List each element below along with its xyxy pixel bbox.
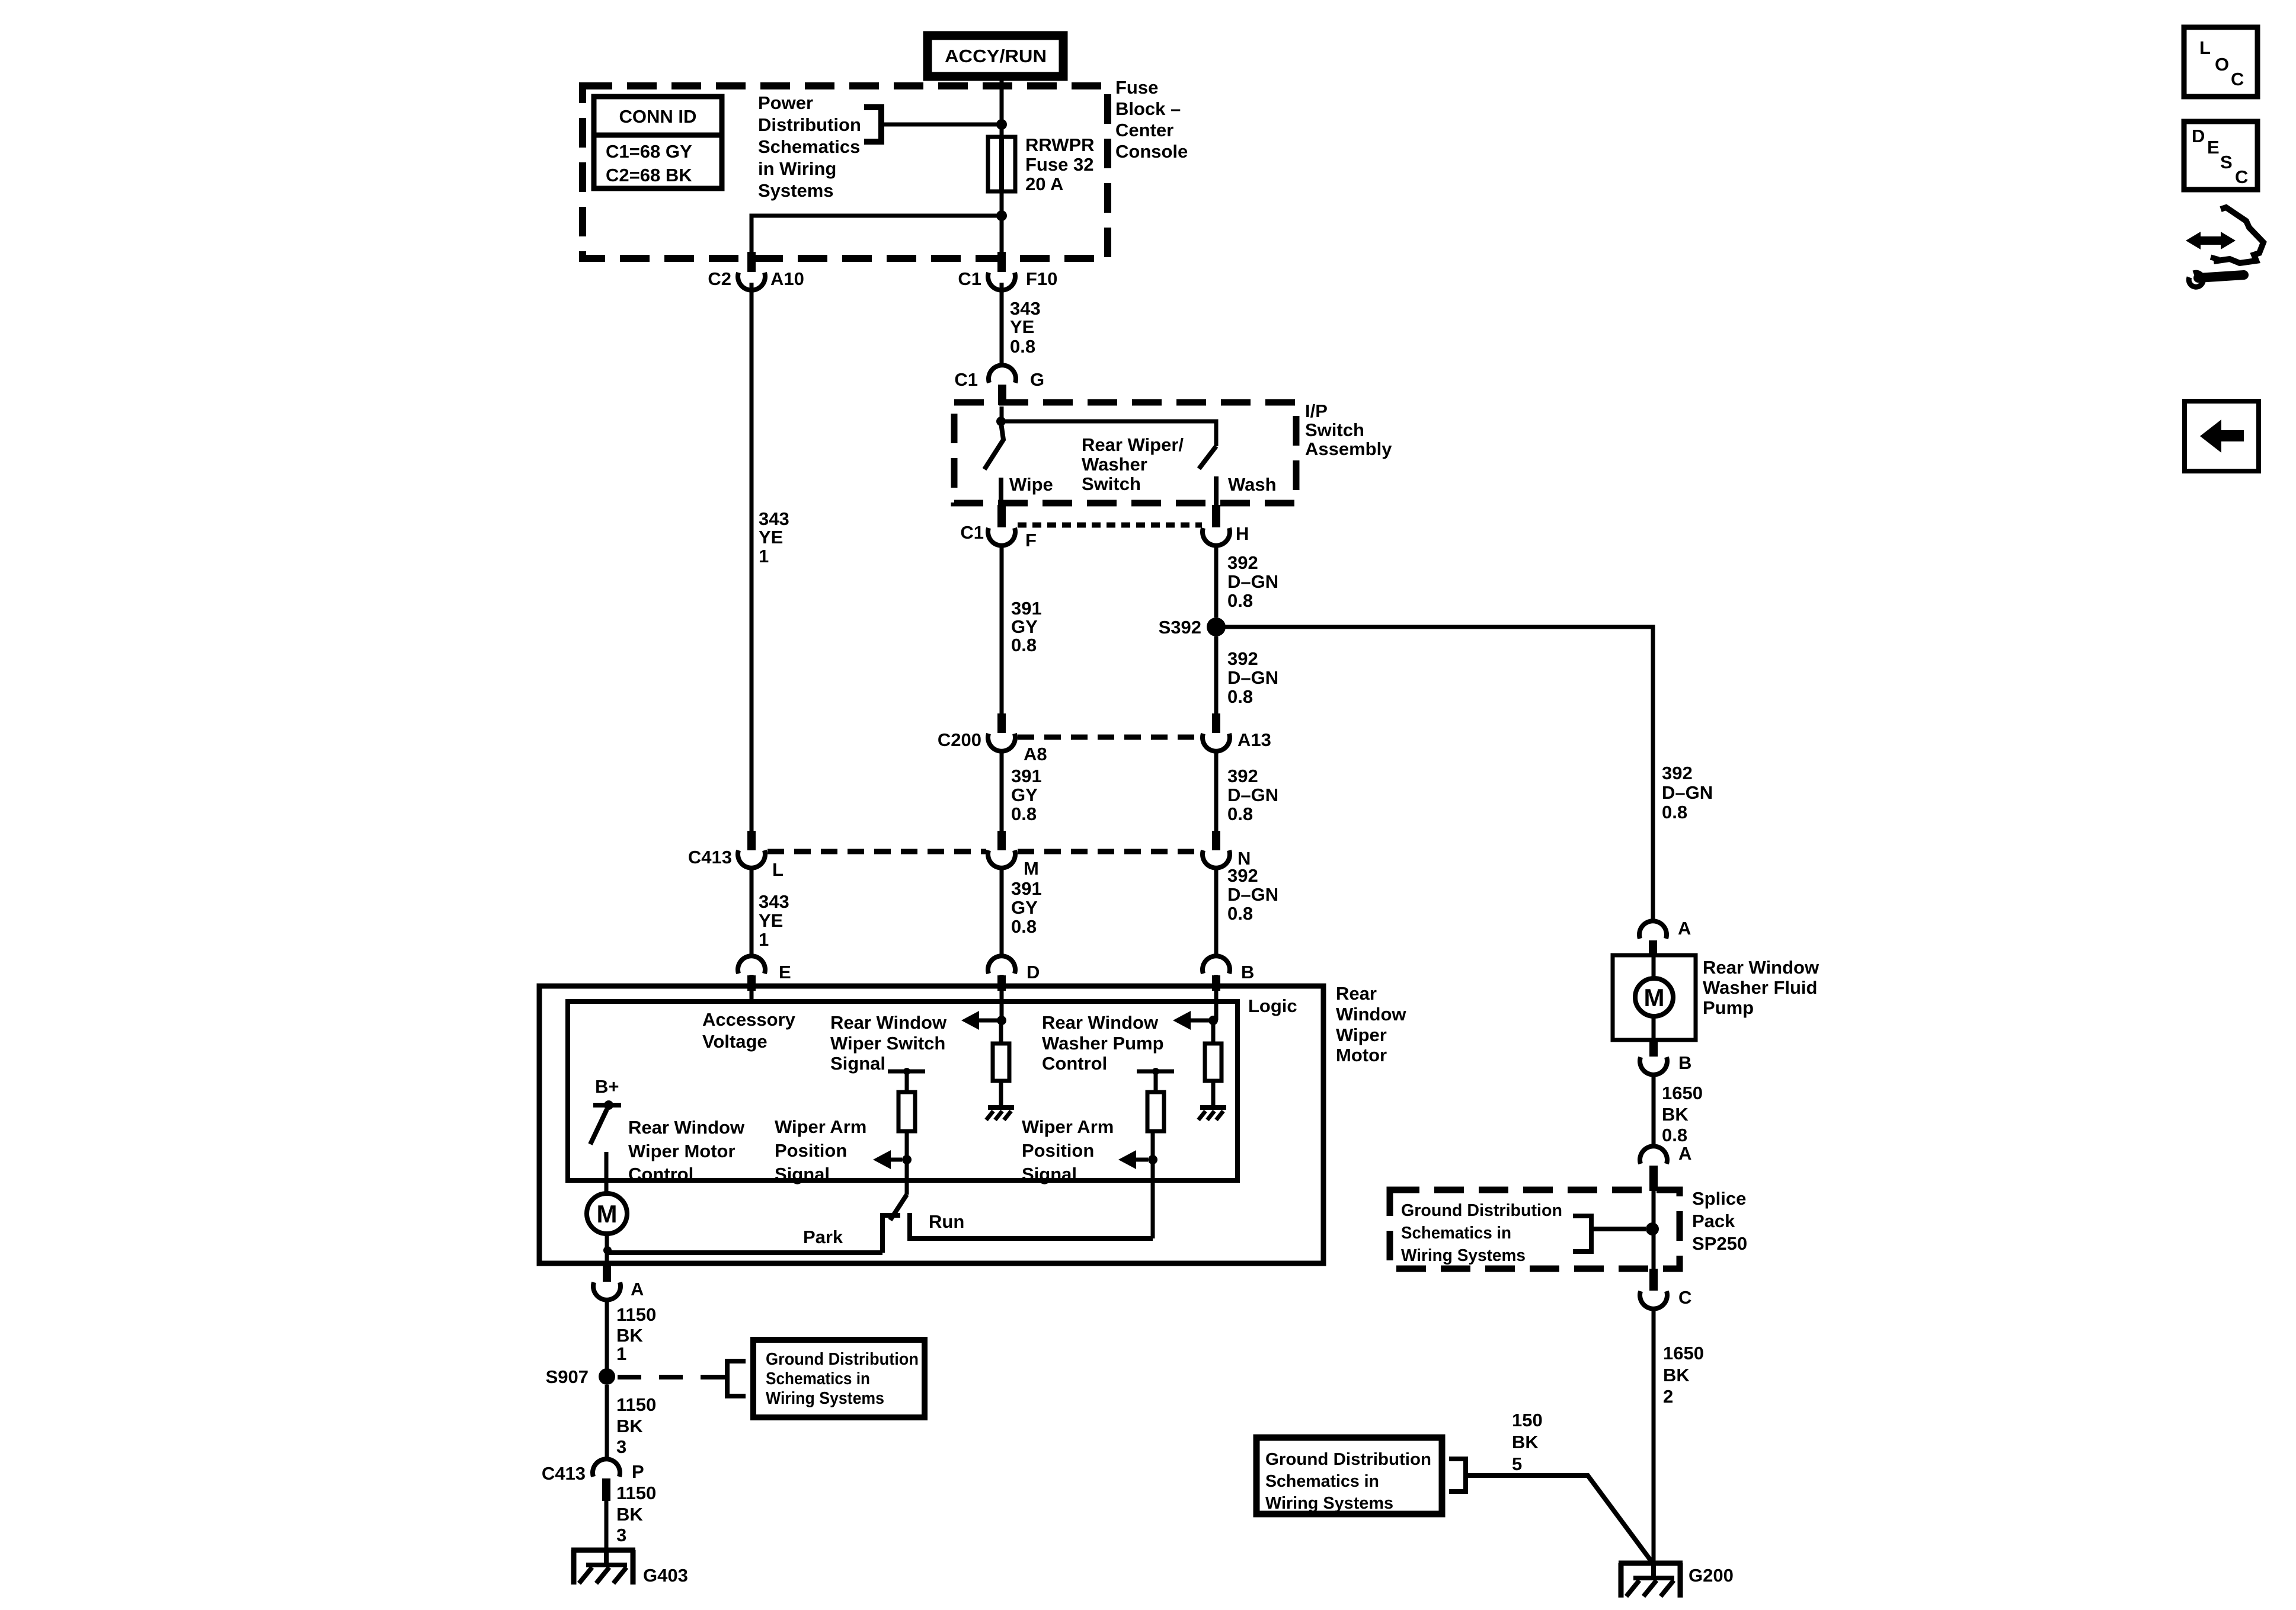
svg-text:150: 150 bbox=[1512, 1410, 1543, 1430]
svg-text:C1=68 GY: C1=68 GY bbox=[606, 141, 692, 162]
svg-text:Fuse: Fuse bbox=[1115, 77, 1158, 98]
svg-text:391: 391 bbox=[1011, 598, 1042, 619]
wash switch blade bbox=[1199, 446, 1216, 469]
dashed connector line C413 M-N bbox=[1018, 849, 1202, 854]
svg-text:0.8: 0.8 bbox=[1662, 802, 1687, 822]
svg-text:392: 392 bbox=[1227, 648, 1258, 669]
wire below fuse bbox=[1000, 191, 1004, 254]
svg-text:Position: Position bbox=[1022, 1140, 1094, 1161]
svg-text:GY: GY bbox=[1011, 897, 1038, 918]
svg-text:Wiring Systems: Wiring Systems bbox=[766, 1389, 884, 1408]
svg-text:I/P: I/P bbox=[1305, 401, 1328, 421]
svg-text:Center: Center bbox=[1115, 120, 1173, 140]
connector terminal C bbox=[1649, 1269, 1658, 1291]
svg-text:0.8: 0.8 bbox=[1662, 1125, 1687, 1145]
ground distribution schematics box S907 bbox=[753, 1340, 925, 1417]
svg-text:0.8: 0.8 bbox=[1011, 916, 1037, 937]
svg-text:SP250: SP250 bbox=[1692, 1233, 1747, 1254]
svg-text:Fuse 32: Fuse 32 bbox=[1025, 154, 1093, 175]
svg-text:YE: YE bbox=[759, 527, 783, 548]
wire 391 GY 0.8 bbox=[1000, 868, 1004, 956]
branch wire to C2 A10 bbox=[752, 216, 1002, 254]
svg-text:M: M bbox=[1644, 984, 1665, 1012]
ground B branch bbox=[1200, 1105, 1226, 1110]
junction above fuse bbox=[996, 119, 1007, 130]
wire through splice pack bbox=[1652, 1191, 1656, 1269]
bracket bottom ground note bbox=[1449, 1459, 1466, 1491]
svg-text:O: O bbox=[2215, 54, 2229, 75]
resistor D branch bbox=[993, 1044, 1009, 1081]
left wire 343 YE 1 from A10 bbox=[750, 283, 754, 832]
svg-text:Ground Distribution: Ground Distribution bbox=[1265, 1450, 1431, 1469]
svg-text:C: C bbox=[2235, 167, 2248, 187]
wire 1150 BK 3 bbox=[605, 1385, 609, 1460]
dashed wire from S907 to ground distribution note bbox=[618, 1375, 709, 1379]
svg-text:Run: Run bbox=[929, 1211, 964, 1232]
CONN ID table bbox=[594, 97, 722, 188]
svg-text:Position: Position bbox=[775, 1140, 847, 1161]
svg-text:D–GN: D–GN bbox=[1227, 667, 1278, 688]
connector terminal E bbox=[738, 956, 765, 974]
bracket for power distribution note bbox=[864, 107, 881, 142]
svg-text:ACCY/RUN: ACCY/RUN bbox=[945, 46, 1047, 66]
svg-text:Pump: Pump bbox=[1703, 997, 1754, 1018]
svg-text:G403: G403 bbox=[643, 1565, 688, 1586]
bracket ground distribution S907 bbox=[727, 1361, 746, 1396]
wire 1150 BK 3 to G403 bbox=[605, 1501, 609, 1550]
svg-text:Rear Window: Rear Window bbox=[1042, 1012, 1159, 1033]
svg-text:Wash: Wash bbox=[1228, 474, 1277, 495]
svg-text:C413: C413 bbox=[688, 847, 732, 868]
arrow rear window wiper switch signal bbox=[961, 1011, 979, 1030]
dashed connector line C1 F-H bbox=[1018, 523, 1202, 528]
wire from S392 to washer pump bbox=[1216, 627, 1653, 923]
svg-text:392: 392 bbox=[1227, 766, 1258, 786]
rear window washer fluid pump box bbox=[1613, 955, 1696, 1040]
wire into pump bbox=[1652, 955, 1656, 978]
svg-text:BK: BK bbox=[1662, 1104, 1689, 1125]
svg-text:L: L bbox=[772, 859, 784, 880]
svg-text:Pack: Pack bbox=[1692, 1211, 1735, 1231]
wire from bracket to fuse feed bbox=[881, 123, 1002, 127]
svg-text:392: 392 bbox=[1227, 552, 1258, 573]
svg-text:GY: GY bbox=[1011, 785, 1038, 805]
wire ACCY/RUN to fuse bbox=[1000, 81, 1004, 137]
svg-text:343: 343 bbox=[1010, 298, 1041, 319]
icon car door sill bbox=[2211, 257, 2219, 260]
wire into right position resistor bbox=[1154, 1071, 1158, 1092]
svg-text:C200: C200 bbox=[938, 729, 981, 750]
node D branch bbox=[997, 1016, 1006, 1025]
splice S392 bbox=[1207, 617, 1226, 636]
connector terminal B pump bbox=[1649, 1040, 1658, 1057]
svg-text:0.8: 0.8 bbox=[1011, 804, 1037, 824]
svg-text:C: C bbox=[1678, 1287, 1691, 1308]
svg-text:Switch: Switch bbox=[1082, 473, 1141, 494]
wire 391 GY 0.8 bbox=[1000, 751, 1004, 832]
svg-text:YE: YE bbox=[759, 910, 783, 931]
svg-text:20 A: 20 A bbox=[1025, 174, 1063, 194]
svg-text:Window: Window bbox=[1336, 1004, 1406, 1025]
splice pack SP250 dashed box bbox=[1390, 1190, 1680, 1269]
svg-text:C1: C1 bbox=[960, 522, 984, 543]
svg-text:Console: Console bbox=[1115, 141, 1188, 162]
wash contact bbox=[1214, 476, 1219, 505]
svg-text:Ground Distribution: Ground Distribution bbox=[766, 1350, 919, 1369]
svg-text:Wiring Systems: Wiring Systems bbox=[1401, 1246, 1526, 1265]
wire E accessory voltage bbox=[750, 975, 754, 1001]
svg-text:Power: Power bbox=[758, 92, 813, 113]
park wire bbox=[607, 1250, 882, 1255]
svg-text:C413: C413 bbox=[542, 1463, 586, 1484]
svg-text:5: 5 bbox=[1512, 1454, 1522, 1474]
left wiper arm position chain top bar bbox=[888, 1070, 925, 1074]
svg-text:Schematics in: Schematics in bbox=[766, 1369, 870, 1388]
svg-text:3: 3 bbox=[616, 1525, 626, 1545]
svg-text:Wiring Systems: Wiring Systems bbox=[1265, 1494, 1393, 1513]
right position resistor bbox=[1147, 1092, 1164, 1131]
wire to wash switch bbox=[1001, 421, 1216, 446]
svg-text:Accessory: Accessory bbox=[702, 1009, 796, 1030]
svg-text:A: A bbox=[1678, 918, 1691, 939]
wire 392 D-GN 0.8 bbox=[1214, 868, 1219, 956]
svg-text:0.8: 0.8 bbox=[1010, 336, 1035, 357]
connector terminal D bbox=[988, 956, 1015, 974]
wire 392 D-GN 0.8 bbox=[1214, 545, 1219, 617]
svg-text:L: L bbox=[2199, 37, 2211, 58]
wire 1150 BK 1 bbox=[605, 1299, 609, 1377]
connector terminal A below motor bbox=[603, 1263, 611, 1282]
park wire junction bbox=[603, 1246, 612, 1254]
svg-text:BK: BK bbox=[1663, 1365, 1690, 1385]
wire to motor bbox=[605, 1152, 609, 1195]
connector terminal B bbox=[1203, 956, 1230, 974]
svg-text:2: 2 bbox=[1663, 1386, 1673, 1407]
motor M left bbox=[587, 1193, 627, 1234]
svg-text:C: C bbox=[2231, 69, 2244, 89]
logic box bbox=[568, 1001, 1237, 1180]
wire into left position resistor bbox=[905, 1071, 909, 1092]
Fuse Block Center Console dashed box bbox=[583, 86, 1108, 258]
svg-text:1150: 1150 bbox=[616, 1394, 656, 1415]
svg-text:Voltage: Voltage bbox=[702, 1031, 768, 1052]
right position signal node bbox=[1148, 1155, 1157, 1164]
icon DESC box bbox=[2184, 121, 2257, 190]
connector C413 terminal N bbox=[1212, 831, 1220, 850]
dashed connector line C200 bbox=[1018, 735, 1202, 740]
B+ terminal bar bbox=[593, 1103, 621, 1108]
wire into switch bbox=[1000, 406, 1004, 422]
svg-text:S392: S392 bbox=[1159, 617, 1201, 638]
arrow wiper arm position signal left bbox=[873, 1150, 891, 1169]
svg-text:Wiper Arm: Wiper Arm bbox=[775, 1116, 866, 1137]
svg-text:H: H bbox=[1236, 523, 1249, 544]
svg-text:Assembly: Assembly bbox=[1305, 438, 1392, 459]
wire 150 BK 5 bbox=[1466, 1475, 1652, 1563]
wipe switch blade bbox=[984, 423, 1003, 469]
svg-text:GY: GY bbox=[1011, 616, 1038, 637]
connector C200 terminal A13 bbox=[1212, 713, 1220, 733]
svg-text:Rear Window: Rear Window bbox=[830, 1012, 947, 1033]
wire left position resistor to park switch bbox=[905, 1131, 909, 1195]
svg-text:Control: Control bbox=[1042, 1053, 1107, 1074]
svg-text:D–GN: D–GN bbox=[1227, 785, 1278, 805]
connector C1 terminal G bbox=[989, 365, 1016, 383]
svg-text:Switch: Switch bbox=[1305, 420, 1364, 440]
icon back arrow box bbox=[2185, 401, 2259, 471]
svg-text:BK: BK bbox=[1512, 1432, 1539, 1452]
svg-text:Rear Window: Rear Window bbox=[628, 1117, 745, 1138]
wire B into logic bbox=[1214, 975, 1219, 1020]
svg-text:Wiper: Wiper bbox=[1336, 1025, 1387, 1045]
connector C2 terminal A10 bbox=[747, 252, 756, 272]
svg-text:Distribution: Distribution bbox=[758, 114, 861, 135]
svg-text:Washer Fluid: Washer Fluid bbox=[1703, 977, 1817, 998]
svg-text:Systems: Systems bbox=[758, 180, 834, 201]
wire right position resistor to run contact bbox=[1151, 1131, 1155, 1238]
connector C413 terminal P bbox=[593, 1459, 620, 1477]
svg-text:1650: 1650 bbox=[1663, 1343, 1704, 1363]
icon wrench bbox=[2189, 273, 2203, 287]
wire 391 GY 0.8 bbox=[1000, 545, 1004, 715]
wire to B branch resistor bbox=[1211, 1020, 1216, 1044]
svg-text:Wipe: Wipe bbox=[1009, 474, 1053, 495]
left position signal node bbox=[902, 1155, 912, 1164]
svg-text:391: 391 bbox=[1011, 878, 1042, 899]
svg-text:Schematics in: Schematics in bbox=[1401, 1224, 1511, 1243]
rear window wiper motor box bbox=[539, 986, 1323, 1263]
svg-text:Washer: Washer bbox=[1082, 454, 1147, 475]
svg-text:Washer Pump: Washer Pump bbox=[1042, 1033, 1164, 1054]
svg-text:CONN ID: CONN ID bbox=[619, 106, 697, 127]
svg-text:1150: 1150 bbox=[616, 1304, 656, 1325]
connector C1 terminal H bbox=[1212, 505, 1220, 527]
svg-text:Wiper Arm: Wiper Arm bbox=[1022, 1116, 1114, 1137]
svg-text:G: G bbox=[1030, 369, 1044, 390]
wire 343 YE 1 bbox=[750, 868, 754, 956]
wire B branch resistor to ground bbox=[1211, 1081, 1216, 1108]
wipe contact bbox=[999, 478, 1003, 505]
svg-text:F10: F10 bbox=[1026, 268, 1057, 289]
arrow rear window washer pump control bbox=[1173, 1011, 1191, 1030]
splice node SP250 bbox=[1646, 1222, 1659, 1235]
svg-text:0.8: 0.8 bbox=[1011, 635, 1037, 655]
pump motor M bbox=[1635, 978, 1673, 1016]
svg-text:S: S bbox=[2220, 152, 2233, 172]
svg-text:D: D bbox=[1027, 962, 1040, 982]
svg-text:0.8: 0.8 bbox=[1227, 804, 1253, 824]
bracket splice pack note bbox=[1573, 1216, 1591, 1251]
connector terminal A pump bbox=[1639, 921, 1667, 939]
wire 343 YE 0.8 bbox=[1000, 283, 1004, 366]
svg-text:Motor: Motor bbox=[1336, 1045, 1387, 1065]
connector C200 terminal A8 bbox=[997, 713, 1006, 733]
svg-text:D–GN: D–GN bbox=[1227, 571, 1278, 592]
run contact bbox=[910, 1213, 1153, 1238]
wire 392 D-GN 0.8 bbox=[1214, 751, 1219, 832]
svg-text:391: 391 bbox=[1011, 766, 1042, 786]
wire 1650 BK 0.8 bbox=[1652, 1074, 1656, 1148]
svg-text:1: 1 bbox=[759, 929, 769, 950]
wire D branch resistor to ground bbox=[999, 1081, 1003, 1108]
svg-text:M: M bbox=[1024, 858, 1039, 879]
svg-text:Rear Wiper/: Rear Wiper/ bbox=[1082, 434, 1184, 455]
svg-text:343: 343 bbox=[759, 891, 789, 912]
svg-text:P: P bbox=[632, 1461, 644, 1482]
I/P Switch Assembly dashed box bbox=[954, 402, 1296, 503]
svg-text:Rear Window: Rear Window bbox=[1703, 957, 1819, 978]
svg-text:0.8: 0.8 bbox=[1227, 590, 1253, 611]
connector terminal A splice pack bbox=[1640, 1146, 1667, 1164]
svg-text:Control: Control bbox=[628, 1164, 693, 1185]
svg-text:C1: C1 bbox=[954, 369, 978, 390]
svg-text:A10: A10 bbox=[770, 268, 804, 289]
ground G200 bbox=[1619, 1561, 1683, 1566]
svg-text:C2=68 BK: C2=68 BK bbox=[606, 165, 692, 185]
svg-text:Rear: Rear bbox=[1336, 983, 1377, 1004]
svg-text:Wiper Switch: Wiper Switch bbox=[830, 1033, 945, 1054]
power feed ACCY/RUN box bbox=[928, 36, 1063, 76]
svg-text:A: A bbox=[1678, 1143, 1691, 1164]
svg-text:B: B bbox=[1678, 1052, 1691, 1073]
wire D into logic bbox=[1000, 975, 1004, 1020]
connector C413 terminal L bbox=[747, 831, 756, 850]
B+ node bbox=[604, 1100, 613, 1110]
svg-text:YE: YE bbox=[1010, 316, 1034, 337]
svg-text:E: E bbox=[779, 962, 791, 982]
svg-text:RRWPR: RRWPR bbox=[1025, 135, 1095, 155]
svg-text:1: 1 bbox=[616, 1343, 626, 1364]
wire 392 D-GN 0.8 below S392 bbox=[1214, 636, 1219, 715]
left position resistor bbox=[898, 1092, 915, 1131]
svg-text:Park: Park bbox=[803, 1227, 843, 1247]
svg-text:1650: 1650 bbox=[1662, 1083, 1703, 1103]
svg-text:in Wiring: in Wiring bbox=[758, 158, 836, 179]
svg-text:BK: BK bbox=[616, 1325, 643, 1346]
wire motor to connector A bbox=[605, 1233, 609, 1266]
wire below motor bbox=[605, 1233, 609, 1253]
svg-text:C2: C2 bbox=[708, 268, 731, 289]
svg-text:A8: A8 bbox=[1024, 744, 1047, 764]
svg-text:BK: BK bbox=[616, 1504, 643, 1525]
svg-text:C1: C1 bbox=[958, 268, 981, 289]
fuse RRWPR Fuse 32 20 A bbox=[988, 137, 1015, 191]
svg-text:G200: G200 bbox=[1689, 1565, 1734, 1586]
svg-text:Schematics in: Schematics in bbox=[1265, 1472, 1379, 1491]
icon LOC box bbox=[2184, 27, 2257, 97]
connector C413 terminal M bbox=[997, 831, 1006, 850]
ground D branch bbox=[988, 1105, 1014, 1110]
svg-text:B+: B+ bbox=[595, 1076, 619, 1097]
ground distribution schematics box bottom bbox=[1256, 1438, 1442, 1514]
arrow wiper arm position signal right bbox=[1118, 1150, 1136, 1169]
svg-text:E: E bbox=[2207, 137, 2220, 158]
svg-text:Ground Distribution: Ground Distribution bbox=[1401, 1201, 1562, 1220]
junction below fuse bbox=[996, 210, 1007, 221]
wire to D branch resistor bbox=[999, 1020, 1003, 1044]
svg-text:392: 392 bbox=[1227, 865, 1258, 886]
connector C1 terminal F10 bbox=[997, 252, 1006, 272]
svg-text:Splice: Splice bbox=[1692, 1188, 1746, 1209]
icon car door with arrow bbox=[2214, 207, 2263, 263]
svg-text:0.8: 0.8 bbox=[1227, 903, 1253, 924]
wiper motor control switch blade bbox=[590, 1109, 607, 1144]
svg-text:Logic: Logic bbox=[1248, 996, 1297, 1016]
svg-text:D–GN: D–GN bbox=[1662, 782, 1713, 803]
svg-text:Signal: Signal bbox=[830, 1053, 885, 1074]
connector C1 terminal F bbox=[997, 505, 1006, 527]
svg-text:BK: BK bbox=[616, 1416, 643, 1436]
resistor B branch bbox=[1205, 1044, 1221, 1081]
wire 1650 BK 2 to G200 bbox=[1652, 1308, 1656, 1563]
svg-text:1150: 1150 bbox=[616, 1483, 656, 1503]
svg-text:S907: S907 bbox=[546, 1366, 589, 1387]
svg-text:D: D bbox=[2192, 126, 2205, 146]
node B branch bbox=[1208, 1016, 1218, 1025]
svg-text:0.8: 0.8 bbox=[1227, 686, 1253, 707]
svg-text:Signal: Signal bbox=[775, 1164, 830, 1185]
svg-text:1: 1 bbox=[759, 546, 769, 566]
svg-text:3: 3 bbox=[616, 1436, 626, 1457]
right wiper arm position chain top bar bbox=[1137, 1070, 1174, 1074]
svg-text:Wiper Motor: Wiper Motor bbox=[628, 1141, 736, 1161]
park contact bbox=[882, 1215, 900, 1253]
park/run switch blade bbox=[890, 1195, 907, 1220]
svg-text:B: B bbox=[1241, 962, 1254, 982]
svg-text:D–GN: D–GN bbox=[1227, 884, 1278, 905]
svg-text:392: 392 bbox=[1662, 763, 1693, 783]
wire pump to terminal B bbox=[1652, 1016, 1656, 1040]
svg-text:Schematics: Schematics bbox=[758, 136, 860, 157]
svg-text:A: A bbox=[631, 1279, 644, 1299]
svg-text:Signal: Signal bbox=[1022, 1164, 1077, 1185]
switch common node bbox=[996, 417, 1006, 426]
splice S907 bbox=[599, 1368, 615, 1385]
svg-text:A13: A13 bbox=[1237, 729, 1271, 750]
ground G403 bbox=[571, 1548, 635, 1553]
svg-text:M: M bbox=[597, 1200, 618, 1228]
svg-text:F: F bbox=[1025, 530, 1037, 550]
svg-text:Block –: Block – bbox=[1115, 98, 1181, 119]
svg-text:343: 343 bbox=[759, 508, 789, 529]
dashed connector line C413 L-M bbox=[768, 849, 986, 854]
